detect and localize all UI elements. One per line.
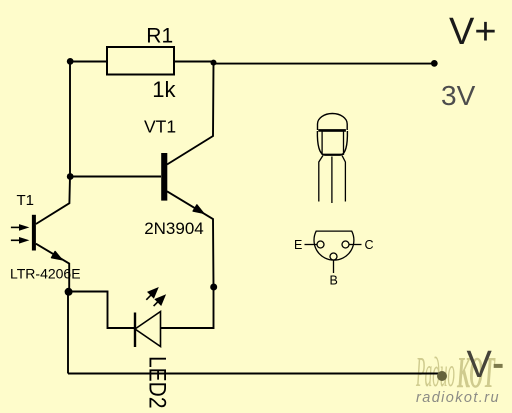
svg-text:V: V	[467, 344, 493, 386]
LED2 triangle	[135, 312, 161, 347]
node: junction resistor right	[211, 60, 217, 66]
wire: T1 collector riser	[36, 177, 70, 225]
wire: left drop to V- rail	[67, 292, 69, 374]
arrowhead T1 emitter	[52, 252, 62, 260]
svg-text:R1: R1	[146, 24, 173, 47]
svg-text:3V: 3V	[441, 80, 476, 111]
wire: V- rail	[68, 373, 442, 375]
transistor VT1 bar	[161, 153, 167, 201]
svg-text:T1: T1	[17, 192, 35, 209]
wire: V+ rail left segment	[70, 61, 107, 63]
wire: left vertical bus	[69, 62, 71, 177]
svg-text:LED2: LED2	[143, 356, 170, 409]
LED2 cathode bar	[134, 313, 136, 348]
wire: VT1 base	[70, 176, 161, 178]
wire: LED anode branch	[161, 287, 214, 328]
pinout: pin E circle	[317, 241, 324, 248]
package drawing: body sides	[317, 131, 347, 155]
LED2 emission arrow 2	[154, 294, 167, 306]
label V- : minus stroke	[494, 364, 503, 368]
svg-text:LTR-4206E: LTR-4206E	[10, 266, 81, 282]
package drawing: center leg	[331, 157, 333, 204]
svg-text:B: B	[330, 274, 338, 288]
resistor R1	[107, 47, 174, 75]
wire: VT1 emitter	[167, 191, 214, 287]
pinout: pin B circle	[330, 253, 337, 260]
svg-text:radiokot.ru: radiokot.ru	[416, 390, 500, 406]
node: junction LED left	[65, 288, 73, 296]
pinout: E lead line	[305, 244, 318, 246]
package drawing: inner rect	[322, 131, 343, 154]
svg-text:1k: 1k	[152, 77, 176, 102]
wire: V+ rail right segment	[174, 61, 214, 63]
pinout: B lead line	[333, 260, 335, 273]
pinout: pin C circle	[342, 241, 349, 248]
node: V+ terminal	[431, 60, 438, 67]
package drawing: flange line	[318, 129, 346, 132]
wire: V+ rail to terminal	[214, 63, 435, 65]
package drawing: dome	[318, 114, 348, 131]
node: junction LED right	[210, 284, 217, 291]
watermark Радио КОТ	[416, 348, 496, 397]
svg-text:C: C	[365, 238, 374, 252]
node: junction top-left	[67, 58, 74, 65]
node: V- terminal (olive)	[437, 371, 447, 381]
LED2 emission arrow 1	[146, 287, 159, 300]
light arrow 2 into T1	[11, 237, 30, 244]
package drawing: right leg	[342, 155, 345, 201]
svg-text:2N3904: 2N3904	[144, 219, 204, 238]
pinout: TO-92 bottom view outline	[314, 231, 354, 260]
phototransistor T1 bar	[32, 215, 36, 251]
wire: LED cathode branch	[69, 292, 135, 329]
node: junction base tap	[67, 173, 74, 180]
pinout: C lead line	[349, 244, 362, 246]
light arrow 1 into T1	[11, 224, 30, 231]
arrowhead VT1 emitter	[193, 205, 203, 213]
svg-text:VT1: VT1	[144, 117, 176, 137]
wire: T1 emitter	[36, 244, 69, 292]
package drawing: left leg	[319, 155, 323, 201]
wire: VT1 collector	[167, 62, 214, 164]
svg-text:E: E	[294, 238, 302, 252]
svg-text:V+: V+	[449, 11, 497, 53]
